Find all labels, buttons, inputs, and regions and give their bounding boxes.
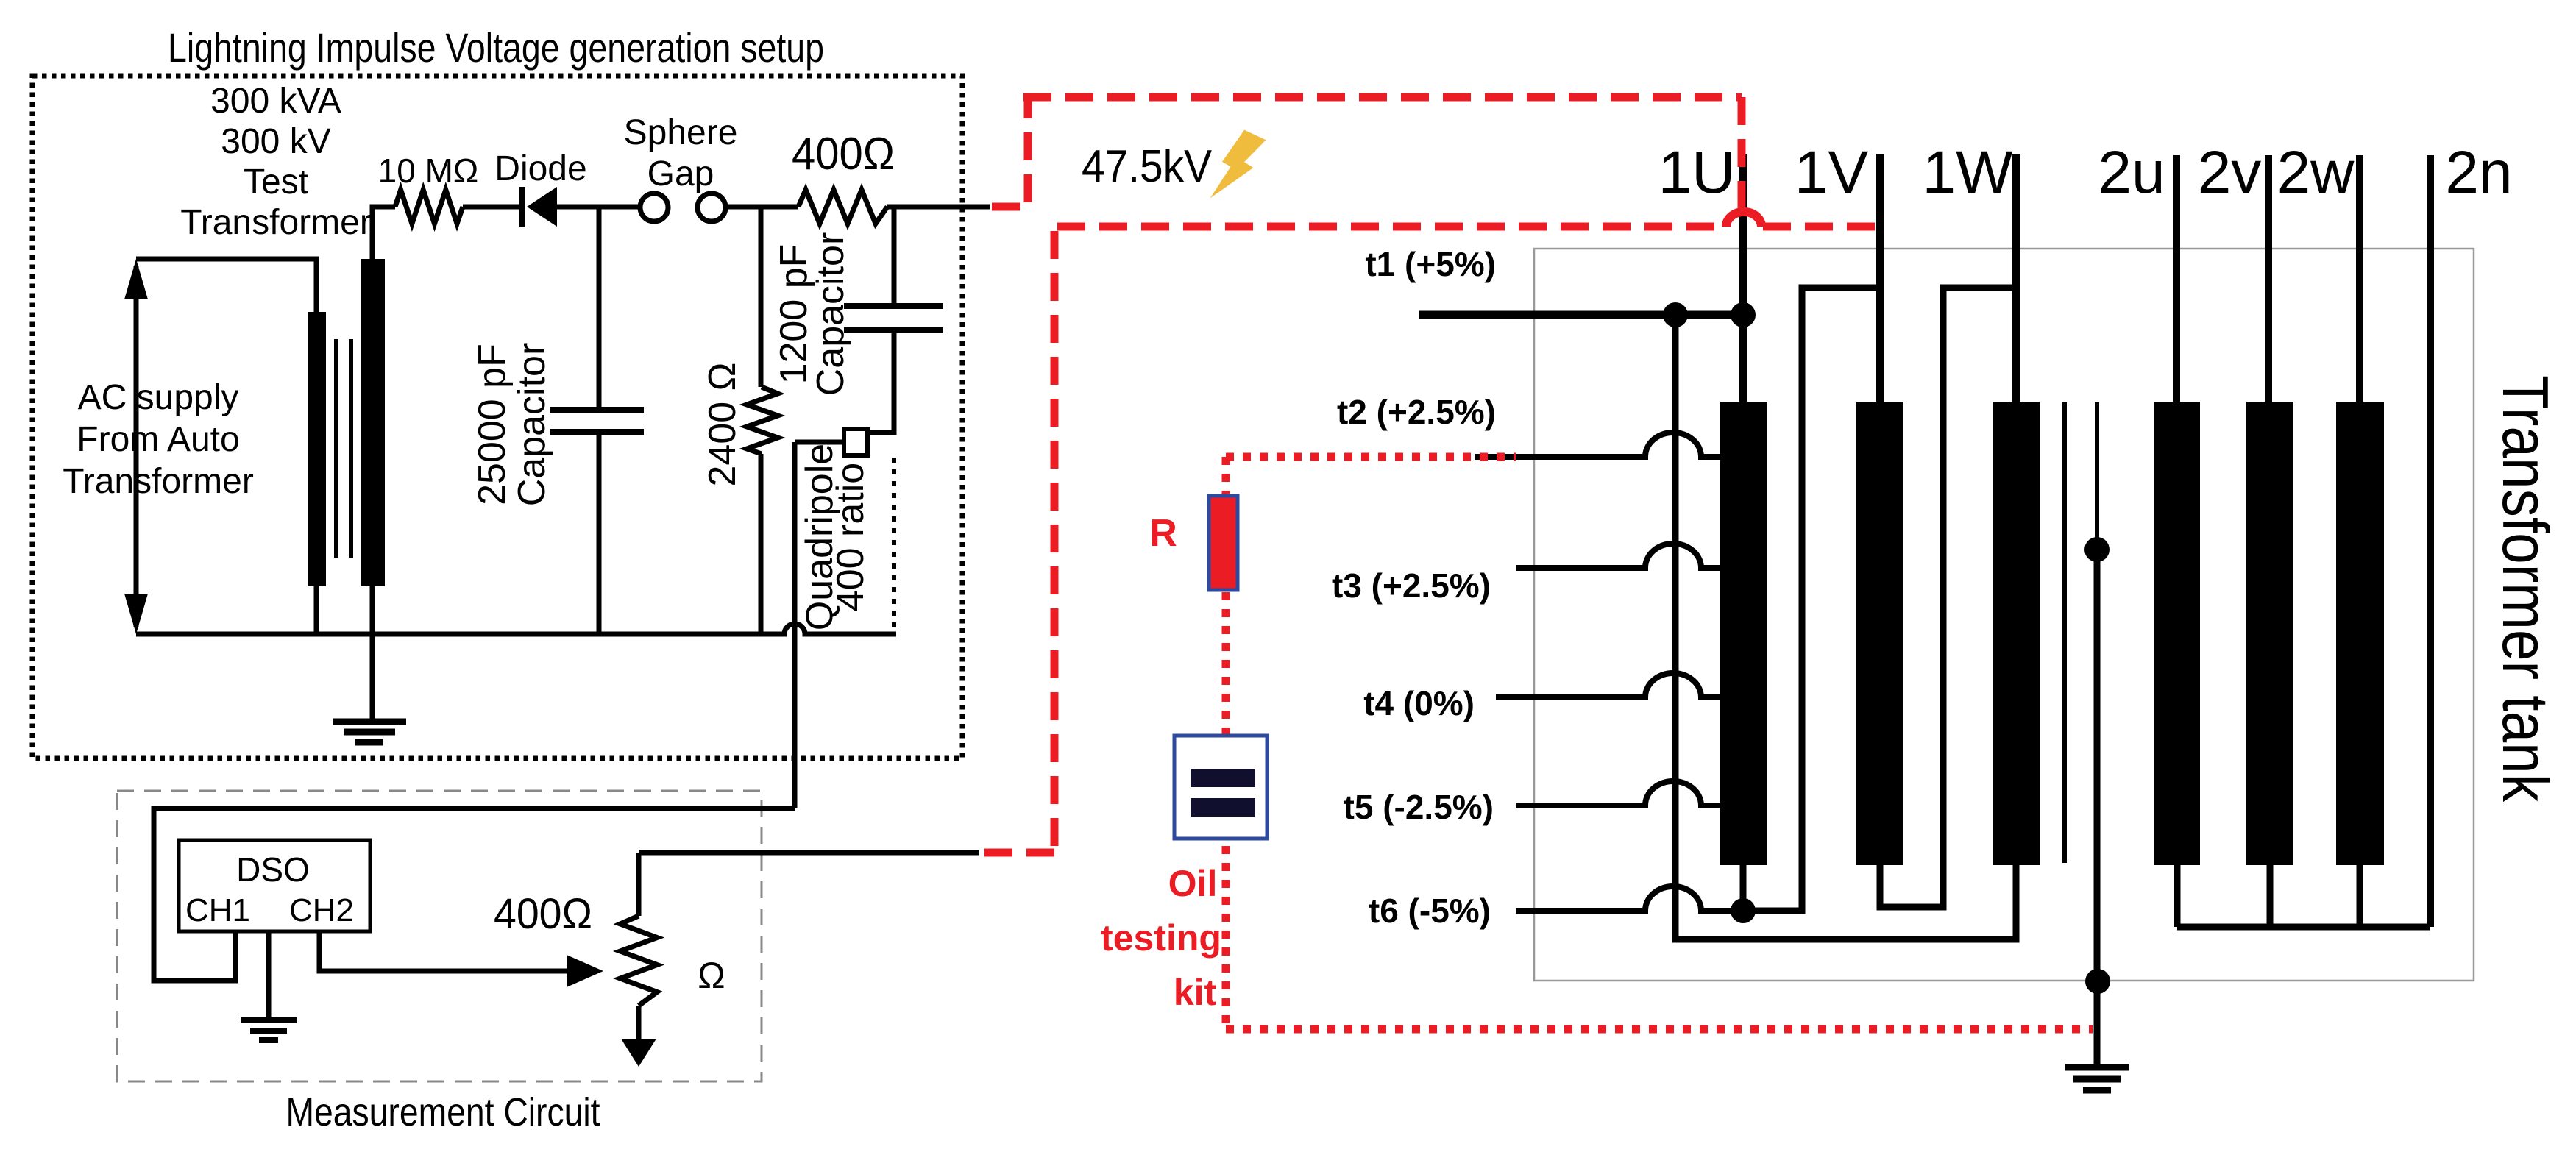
svg-text:R: R <box>1149 512 1177 555</box>
svg-text:10 MΩ: 10 MΩ <box>378 152 479 190</box>
svg-text:300 kV: 300 kV <box>221 122 330 161</box>
svg-text:25000 pF: 25000 pF <box>471 344 514 505</box>
svg-text:AC supply: AC supply <box>78 378 239 417</box>
svg-text:CH2: CH2 <box>289 892 354 928</box>
svg-text:Transformer: Transformer <box>63 462 254 501</box>
svg-text:Lightning Impulse Voltage gene: Lightning Impulse Voltage generation set… <box>168 24 824 71</box>
svg-text:Sphere: Sphere <box>624 113 738 152</box>
svg-text:Capacitor: Capacitor <box>809 232 852 397</box>
svg-text:Transformer: Transformer <box>180 203 372 242</box>
svg-text:kit: kit <box>1174 972 1217 1013</box>
svg-text:300 kVA: 300 kVA <box>210 82 341 121</box>
svg-text:2n: 2n <box>2445 139 2512 206</box>
svg-text:Transformer tank: Transformer tank <box>2489 375 2562 803</box>
svg-text:400 ratio: 400 ratio <box>829 463 872 611</box>
svg-text:Test: Test <box>244 163 308 202</box>
svg-text:Measurement Circuit: Measurement Circuit <box>286 1090 600 1134</box>
svg-text:1U: 1U <box>1658 139 1736 206</box>
svg-text:t4 (0%): t4 (0%) <box>1363 684 1475 722</box>
svg-text:2400 Ω: 2400 Ω <box>701 363 744 487</box>
svg-text:400Ω: 400Ω <box>792 129 895 179</box>
svg-text:t5 (-2.5%): t5 (-2.5%) <box>1344 788 1494 826</box>
svg-text:2u: 2u <box>2098 139 2165 206</box>
svg-text:400Ω: 400Ω <box>494 890 592 938</box>
svg-text:From Auto: From Auto <box>77 420 239 459</box>
svg-text:Capacitor: Capacitor <box>511 343 553 507</box>
svg-text:t3 (+2.5%): t3 (+2.5%) <box>1332 566 1491 605</box>
svg-text:2w: 2w <box>2277 139 2355 206</box>
svg-text:Gap: Gap <box>647 154 714 193</box>
svg-text:Diode: Diode <box>494 149 586 188</box>
svg-text:CH1: CH1 <box>185 892 250 928</box>
svg-text:t2 (+2.5%): t2 (+2.5%) <box>1337 393 1496 431</box>
svg-text:testing: testing <box>1101 917 1221 959</box>
svg-text:2v: 2v <box>2198 139 2262 206</box>
svg-text:t6 (-5%): t6 (-5%) <box>1369 892 1491 930</box>
svg-text:1W: 1W <box>1923 139 2014 206</box>
svg-text:1V: 1V <box>1795 139 1869 206</box>
svg-text:DSO: DSO <box>236 850 310 889</box>
svg-text:Ω: Ω <box>698 955 725 996</box>
svg-text:Oil: Oil <box>1168 863 1218 904</box>
svg-text:47.5kV: 47.5kV <box>1082 141 1213 192</box>
svg-text:t1 (+5%): t1 (+5%) <box>1365 245 1496 283</box>
